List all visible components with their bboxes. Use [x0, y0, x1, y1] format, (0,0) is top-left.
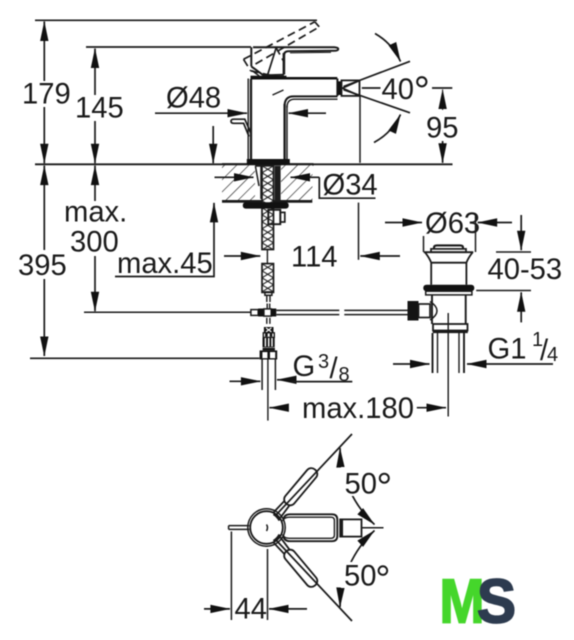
counter hatch right — [281, 165, 313, 200]
dimension 44 — [230, 532, 232, 621]
spray line lower — [344, 90, 411, 113]
plan spout — [284, 514, 338, 541]
hose nut band — [263, 333, 274, 338]
dimension Ø48 right arrow — [289, 112, 327, 114]
hose end dark block with X — [264, 327, 274, 333]
handle wedge left edge — [251, 66, 284, 75]
dimension 114 left arrow — [224, 255, 260, 257]
solid handle lever — [253, 47, 338, 74]
svg-text:179: 179 — [22, 79, 71, 111]
plan aerator — [340, 519, 361, 536]
plan 50deg arc lower — [340, 531, 375, 608]
svg-text:max.180: max.180 — [302, 393, 414, 425]
pop-up waste: Ø63 dimension — [385, 222, 422, 224]
waste tailpipe — [433, 333, 465, 373]
pop-up waste flange — [424, 252, 474, 285]
spout end — [336, 79, 338, 97]
counter hatch left — [222, 165, 255, 200]
svg-text:max.: max. — [64, 197, 127, 229]
plan 50deg diagonal upper — [276, 434, 352, 515]
hose centre line — [267, 360, 269, 421]
dimension max.180 — [269, 407, 287, 409]
svg-text:3: 3 — [318, 351, 329, 373]
spray arc lower with arrow — [374, 115, 401, 143]
plan body inner circle — [250, 511, 283, 544]
svg-text:145: 145 — [75, 93, 124, 125]
mounting nut — [268, 210, 280, 224]
plan 50deg diagonal lower — [276, 540, 352, 621]
waste centre line — [447, 313, 449, 417]
svg-text:40: 40 — [382, 74, 414, 106]
dimension G3/8 — [230, 380, 261, 382]
faucet base plate — [247, 159, 290, 165]
tee lower stem tube — [267, 318, 270, 324]
label 50deg upper — [341, 467, 393, 496]
flange plate under seal — [426, 291, 472, 295]
waste body tube — [432, 295, 466, 324]
dimension 114 right tick and arrow — [358, 203, 360, 260]
knurled nut dark — [263, 337, 275, 347]
svg-text:Ø34: Ø34 — [323, 170, 378, 202]
dimension 145/max300 vertical line — [94, 49, 96, 312]
rod line to max300 — [84, 311, 251, 313]
dimension 40-53 — [496, 251, 531, 253]
pop-up actuator knob at faucet left — [231, 119, 251, 136]
svg-text:8: 8 — [339, 364, 350, 386]
spray arc upper with arrow — [375, 34, 401, 62]
aerator collar dark — [338, 81, 342, 95]
horseshoe washer plate — [243, 202, 289, 208]
braided hose lower segment — [262, 264, 274, 293]
dimension G1 1/4 — [393, 363, 430, 365]
plan pop-up tab — [229, 526, 250, 530]
waste coupling nut — [433, 324, 468, 331]
spout highlight tick — [273, 90, 284, 95]
Ø63 extension lines — [423, 236, 425, 252]
tee dark block left — [258, 309, 264, 317]
svg-text:95: 95 — [426, 113, 458, 145]
cone wedge in mounting hole — [255, 166, 261, 199]
svg-text:Ø63: Ø63 — [425, 208, 480, 240]
wire: top reference line (handle raised level) — [35, 19, 317, 21]
dimension 95 — [432, 87, 452, 89]
faucet spout underside — [285, 96, 338, 106]
pop-up waste seal ring — [423, 285, 474, 292]
svg-text:114: 114 — [291, 242, 338, 274]
svg-text:4: 4 — [547, 344, 558, 366]
svg-text:/: / — [330, 353, 339, 385]
aerator box — [342, 80, 360, 96]
hose break gap line — [266, 250, 268, 263]
label 50deg lower — [341, 562, 390, 588]
dark strip right of shank — [275, 166, 281, 201]
svg-text:50: 50 — [345, 469, 377, 501]
spray line upper — [344, 61, 411, 86]
wire: bottom line of 395 (hose end level) — [30, 357, 259, 359]
plan upper lever — [273, 466, 320, 519]
tee centre square — [264, 309, 271, 316]
braided hose upper — [262, 166, 274, 250]
spray cone inside aerator — [343, 81, 360, 96]
faucet body top dark band — [251, 76, 287, 79]
plan cartridge mark — [267, 525, 268, 532]
wire: mounting surface line — [35, 163, 453, 165]
faucet spout top line — [251, 77, 337, 80]
wire: second reference line (handle top level) — [86, 46, 251, 48]
plan 50deg arc upper — [340, 448, 375, 525]
svg-text:40-53: 40-53 — [488, 254, 563, 286]
collar band — [263, 348, 275, 351]
connector tube — [267, 295, 270, 302]
plan waist marks — [274, 514, 280, 521]
label 40 degrees with leader — [362, 87, 381, 89]
svg-text:50: 50 — [344, 561, 376, 593]
svg-text:44: 44 — [235, 594, 267, 626]
tee upper stem — [267, 304, 270, 309]
svg-text:G: G — [293, 351, 316, 383]
svg-text:G1: G1 — [488, 334, 527, 366]
plan body outer circle — [248, 509, 285, 546]
plan centre line right — [362, 527, 384, 529]
dimension Ø34 left arrow — [215, 176, 254, 178]
dimension max.45 top arrow — [212, 126, 214, 163]
tee dark block right — [271, 309, 276, 317]
hex nut — [260, 350, 278, 359]
extension line spout tip — [359, 97, 361, 163]
dashed raised handle outline — [244, 22, 320, 77]
svg-text:Ø48: Ø48 — [166, 83, 221, 115]
label Ø34 with boxed leader — [291, 176, 320, 178]
counter underside thick line — [222, 200, 312, 203]
handle neck front edge — [268, 47, 277, 75]
dimension 179/395 vertical line — [43, 22, 45, 357]
plan lower lever — [273, 536, 320, 589]
waste side knob knurled — [408, 301, 419, 321]
svg-text:300: 300 — [70, 227, 119, 259]
pop-up rod tee left collar — [251, 310, 258, 316]
svg-text:S: S — [477, 568, 516, 637]
pop-up waste push button — [434, 245, 463, 249]
faucet body column — [248, 47, 287, 160]
supply pipes G3/8 — [262, 360, 275, 391]
pop-up horizontal rod — [276, 310, 407, 314]
hose lower connector cap — [265, 292, 272, 295]
svg-text:395: 395 — [18, 250, 67, 282]
svg-text:max.45: max.45 — [117, 248, 213, 280]
